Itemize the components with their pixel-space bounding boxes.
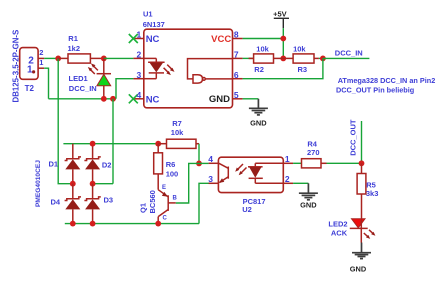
- svg-text:DCC_OUT Pin beliebig: DCC_OUT Pin beliebig: [336, 86, 414, 95]
- svg-text:4: 4: [136, 90, 141, 100]
- junction node DCC rail J: [55, 56, 61, 62]
- svg-text:R1: R1: [68, 34, 78, 43]
- junction bridge mid B: [90, 181, 96, 187]
- svg-text:ATmega328 DCC_IN an Pin2: ATmega328 DCC_IN an Pin2: [338, 76, 436, 85]
- svg-text:1: 1: [285, 154, 290, 164]
- wire bridge bottom rail: [65, 223, 199, 225]
- wire bridge tap down: [112, 99, 114, 184]
- resistor R7: [158, 139, 199, 148]
- svg-text:C: C: [163, 216, 168, 222]
- LED D1 green LED1: [97, 58, 111, 98]
- svg-text:6N137: 6N137: [143, 20, 165, 29]
- svg-text:+5V: +5V: [273, 9, 287, 18]
- wire net hline below LED1: [49, 98, 117, 100]
- wire U1 pin 5 to ground: [243, 98, 259, 100]
- U2 internal LED: [248, 163, 283, 183]
- diode D1: [65, 144, 81, 184]
- svg-text:4: 4: [208, 154, 213, 164]
- svg-text:D3: D3: [104, 196, 114, 205]
- junction bridge bottom A: [70, 221, 76, 227]
- diode D2: [84, 144, 100, 184]
- LED2 red: [350, 219, 368, 243]
- junction base node: [196, 161, 202, 167]
- svg-text:GND: GND: [350, 264, 367, 273]
- svg-text:1: 1: [39, 58, 43, 67]
- svg-text:3k3: 3k3: [366, 189, 379, 198]
- svg-text:1: 1: [27, 65, 33, 76]
- svg-text:DCC_IN: DCC_IN: [69, 84, 97, 93]
- diode D4: [65, 184, 81, 224]
- svg-text:5: 5: [234, 90, 239, 100]
- wire to U1 pin 3: [116, 79, 133, 99]
- ground below LED2: [352, 243, 371, 259]
- diode D3: [84, 184, 100, 224]
- resistor R5: [357, 163, 366, 220]
- svg-text:D2: D2: [102, 161, 112, 170]
- wire pin1 down: [44, 68, 48, 99]
- wire U1 pin 8 to +5V: [243, 38, 284, 40]
- wire base node to Q1 base: [176, 163, 199, 203]
- svg-text:1k2: 1k2: [68, 44, 81, 53]
- svg-text:8: 8: [234, 30, 239, 40]
- optocoupler U2 PC817 body: [209, 157, 294, 192]
- junction R1/LED1: [101, 56, 107, 62]
- junction bridge bottom B: [90, 221, 96, 227]
- svg-text:2: 2: [285, 174, 290, 184]
- svg-text:2: 2: [136, 50, 141, 60]
- wire junction down to bridge: [58, 58, 73, 183]
- U1 internal gate: [188, 59, 233, 84]
- svg-text:GND: GND: [300, 201, 317, 210]
- junction Q1 collector: [155, 221, 161, 227]
- svg-text:B: B: [173, 196, 178, 202]
- svg-text:GND: GND: [250, 118, 267, 127]
- wire U2 pin3 to bottom rail: [199, 183, 210, 223]
- junction +5V/pin8: [280, 36, 286, 42]
- U2 internal phototransistor: [219, 163, 228, 183]
- svg-text:T2: T2: [25, 84, 35, 93]
- transistor Q1 BC560: [158, 190, 176, 224]
- svg-text:10k: 10k: [293, 45, 306, 54]
- resistor R2: [243, 54, 284, 63]
- op-amp U1 optocoupler 6N137 body: [133, 29, 242, 108]
- wire base node to U2 pin 4: [199, 162, 209, 164]
- connector T2: [20, 48, 45, 80]
- junction bridge mid A: [70, 181, 76, 187]
- wire U2 pin2 to ground: [293, 182, 308, 184]
- resistor R3: [283, 54, 323, 63]
- svg-text:6: 6: [234, 70, 239, 80]
- svg-text:DCC_OUT: DCC_OUT: [349, 119, 358, 156]
- junction bridge tap: [110, 96, 116, 102]
- wire DCC_OUT stub: [361, 121, 363, 163]
- U1 internal LED arrows: [164, 65, 175, 76]
- wire DCC_IN node down to U1 pin 6: [243, 58, 323, 78]
- svg-text:DB125-3.5-2P-GN-S: DB125-3.5-2P-GN-S: [11, 30, 20, 103]
- junction bridge top B: [90, 141, 96, 147]
- resistor R6: [154, 144, 163, 190]
- svg-text:3: 3: [136, 70, 141, 80]
- svg-text:D1: D1: [49, 160, 59, 169]
- resistor R1: [58, 54, 104, 63]
- svg-text:PMEG4010CEJ: PMEG4010CEJ: [35, 160, 42, 207]
- svg-text:LED2: LED2: [328, 219, 347, 228]
- svg-text:R3: R3: [298, 65, 308, 74]
- ground below U2: [299, 183, 318, 200]
- svg-text:NC: NC: [146, 94, 160, 105]
- svg-text:R7: R7: [172, 119, 182, 128]
- svg-text:VCC: VCC: [211, 34, 231, 45]
- svg-text:DCC_IN: DCC_IN: [335, 49, 363, 58]
- wire bridge middle rail B: [93, 183, 113, 185]
- LED1 emission arrows: [88, 63, 98, 74]
- svg-text:NC: NC: [146, 34, 160, 45]
- ground below U1: [249, 99, 268, 115]
- svg-text:R6: R6: [166, 160, 176, 169]
- svg-text:3: 3: [208, 174, 213, 184]
- svg-text:2: 2: [39, 48, 43, 57]
- svg-text:10k: 10k: [256, 45, 269, 54]
- junction DCC_OUT node: [359, 160, 365, 166]
- LED2 emission arrows: [364, 230, 376, 239]
- svg-text:U2: U2: [242, 205, 252, 214]
- junction DCC_IN node: [320, 56, 326, 62]
- junction R2/R3: [280, 56, 286, 62]
- U2 internal LED arrows: [235, 164, 246, 175]
- svg-text:D4: D4: [51, 198, 61, 207]
- svg-text:E: E: [162, 185, 166, 191]
- svg-text:LED1: LED1: [69, 74, 88, 83]
- junction LED1 bottom: [101, 96, 107, 102]
- svg-text:Q1: Q1: [139, 203, 148, 213]
- svg-text:7: 7: [234, 50, 239, 60]
- wire bridge top rail: [63, 143, 158, 145]
- no-connect cross pin 4: [129, 94, 138, 103]
- wire R7 to base node: [198, 144, 200, 164]
- svg-text:R2: R2: [254, 65, 264, 74]
- supply +5V: [274, 18, 289, 28]
- svg-text:270: 270: [307, 148, 320, 157]
- svg-text:U1: U1: [143, 10, 153, 19]
- svg-text:GND: GND: [209, 94, 230, 105]
- U1 internal LED: [144, 58, 165, 78]
- svg-text:100: 100: [166, 169, 179, 178]
- svg-text:BC560: BC560: [148, 190, 157, 213]
- svg-text:10k: 10k: [171, 128, 184, 137]
- junction bridge+/R7/R6: [155, 141, 161, 147]
- wire DCC_IN stub: [323, 57, 370, 59]
- resistor R4: [293, 159, 361, 168]
- wire to U1 pin 2: [104, 57, 134, 59]
- no-connect cross pin 1: [129, 34, 138, 43]
- wire pin2 to junction: [44, 57, 58, 59]
- svg-text:1: 1: [136, 30, 141, 40]
- svg-text:ACK: ACK: [331, 229, 348, 238]
- wire +5V down: [282, 28, 284, 58]
